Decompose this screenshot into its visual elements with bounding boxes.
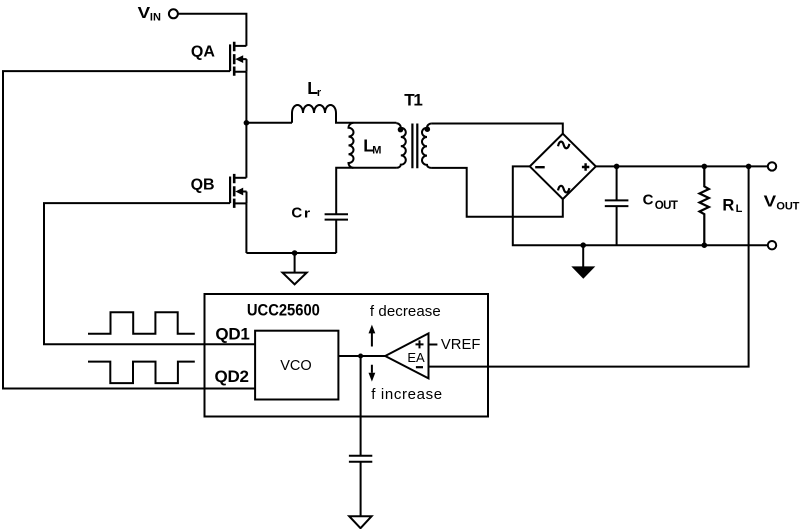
svg-text:V: V: [764, 194, 777, 211]
svg-text:QB: QB: [191, 177, 215, 194]
svg-text:L: L: [736, 203, 743, 215]
svg-text:QD2: QD2: [215, 367, 250, 386]
svg-text:OUT: OUT: [776, 201, 799, 213]
svg-text:UCC25600: UCC25600: [247, 302, 320, 320]
svg-text:M: M: [372, 145, 381, 157]
svg-text:IN: IN: [150, 12, 161, 24]
svg-text:Cr: Cr: [291, 204, 310, 221]
svg-text:VCO: VCO: [280, 357, 312, 374]
svg-text:f decrease: f decrease: [370, 303, 441, 320]
svg-text:R: R: [722, 196, 734, 214]
svg-text:EA: EA: [407, 350, 425, 365]
svg-text:OUT: OUT: [655, 200, 678, 212]
svg-text:r: r: [317, 87, 322, 99]
svg-text:QA: QA: [191, 43, 215, 60]
svg-text:V: V: [138, 5, 151, 22]
svg-text:f increase: f increase: [371, 386, 442, 403]
svg-text:QD1: QD1: [215, 324, 250, 343]
svg-text:VREF: VREF: [441, 336, 481, 353]
svg-text:C: C: [643, 192, 654, 209]
svg-text:T1: T1: [404, 91, 423, 110]
